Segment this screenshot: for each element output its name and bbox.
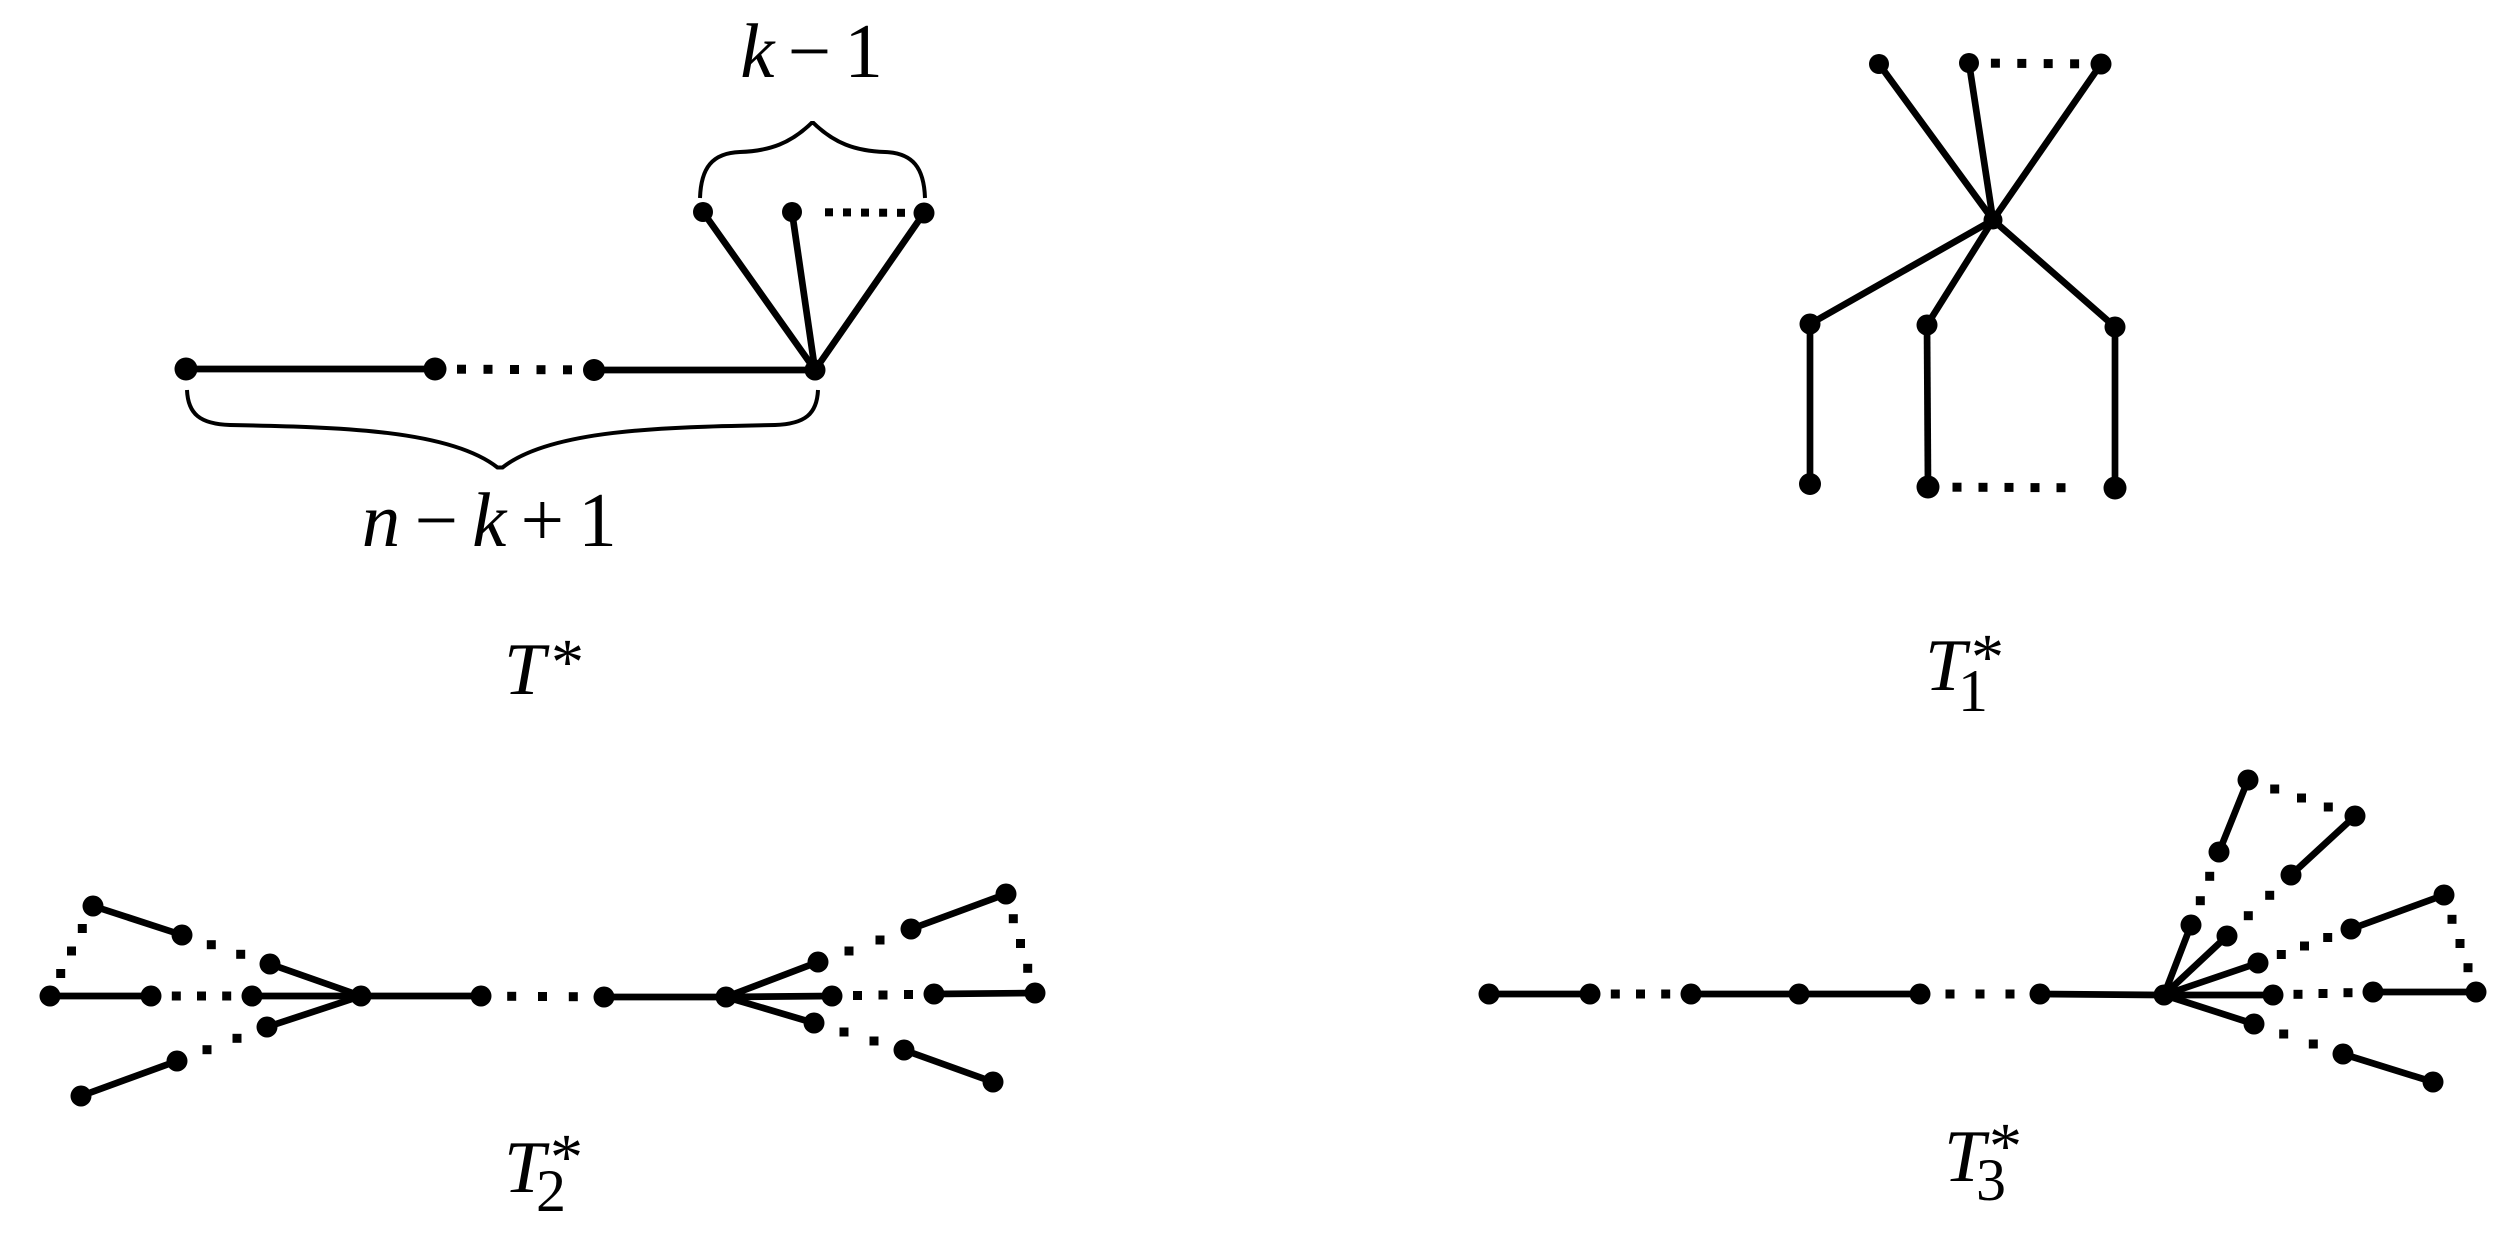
dotted edge T2* upper-left ray <box>207 940 245 959</box>
node T1* U2 <box>1959 53 1979 73</box>
edge T* path C-hub <box>594 367 815 374</box>
svg-text:n − k + 1: n − k + 1 <box>362 477 615 563</box>
dotted edge T2* upper-right ray <box>845 936 885 956</box>
node T2* hubR <box>716 987 737 1008</box>
edge T3* ray1 tip edge <box>2219 780 2248 852</box>
edge T* hub-L1 <box>703 212 815 370</box>
edge T3* hub-F1 <box>2164 925 2191 995</box>
dotted edge T1* U2..U3 <box>1991 59 2079 69</box>
dotted edge T2* fan arc left <box>56 924 87 978</box>
edge T1* U3-hub <box>1993 64 2101 220</box>
node T2* LR mid <box>894 1040 915 1061</box>
node T3* R9 <box>2466 982 2487 1003</box>
edge T2* hubL-P4 <box>361 993 481 1000</box>
node T3* F4 <box>2263 985 2284 1006</box>
node T3* tip2 <box>2345 806 2366 827</box>
edge T1* M3-B3 <box>2112 327 2119 488</box>
edge T2* P3-hubL <box>252 993 361 1000</box>
node T1* B2 <box>1917 476 1940 499</box>
node T1* U1 <box>1869 54 1889 74</box>
node T* L1 <box>693 202 713 222</box>
dotted edge T3* R2..R3 <box>1611 990 1670 999</box>
node T2* hubL <box>351 986 372 1007</box>
brace k-1 <box>700 123 925 198</box>
svg-text:*: * <box>1989 1110 2022 1183</box>
node T2* UR tip <box>996 884 1017 905</box>
edge T3* hub-F2 <box>2164 936 2227 995</box>
node T1* U3 <box>2091 54 2112 75</box>
node T2* P2 <box>141 986 162 1007</box>
edge T3* R1-R2 <box>1489 991 1590 998</box>
node T* A <box>175 358 198 381</box>
dotted edge T3* ray3 dots <box>2277 933 2332 959</box>
edge T1* hub-M2 <box>1927 220 1993 325</box>
edge T2* UL-hubL <box>270 964 361 996</box>
edge T2* hubR-LR <box>726 997 814 1023</box>
node T* hub <box>805 360 826 381</box>
edge T1* M1-B1 <box>1807 324 1814 484</box>
edge T2* hubR-MR <box>726 996 832 997</box>
node T3* R5 <box>1910 984 1931 1005</box>
node T2* LL leaf <box>257 1017 278 1038</box>
node T1* B1 <box>1799 473 1821 495</box>
node T2* low mid <box>167 1051 188 1072</box>
edge T3* lower ray tip edge <box>2343 1054 2433 1082</box>
node T3* R1 <box>1479 984 1500 1005</box>
node T1* B3 <box>2104 477 2127 500</box>
dotted edge T1* B2..B3 <box>1953 483 2066 493</box>
node T3* F5 <box>2244 1014 2265 1035</box>
dotted edge T3* F4..R8 <box>2294 988 2353 999</box>
dotted edge T3* lower ray dots <box>2279 1030 2318 1049</box>
node T3* tip5 <box>2423 1072 2444 1093</box>
edge T2* top tip edge <box>93 906 182 935</box>
node T1* M3 <box>2105 317 2126 338</box>
node T3* N5 <box>2333 1044 2354 1065</box>
node T3* N2 <box>2281 865 2302 886</box>
node T* L2 <box>782 202 802 222</box>
edge T3* hub-F4 <box>2164 992 2273 999</box>
node T3* R3 <box>1681 984 1702 1005</box>
dotted edge T2* MR..Q2 <box>853 990 913 1000</box>
node T2* top tip <box>83 896 104 917</box>
edge T2* LL-hubL <box>267 996 361 1027</box>
edge T1* hub-M3 <box>1993 220 2115 327</box>
svg-text:T: T <box>504 629 550 711</box>
edge T2* upper-right tip edge <box>911 894 1006 929</box>
node T2* P1 <box>40 986 61 1007</box>
node T2* UR mid <box>901 919 922 940</box>
dotted edge T3* R5..R6 <box>1946 990 2015 999</box>
node T3* F3 <box>2248 953 2269 974</box>
dotted edge T* path B..C <box>457 365 572 375</box>
edge T1* U1-hub <box>1879 64 1993 220</box>
edge T3* R4-R5 <box>1799 991 1920 998</box>
node T3* N1 <box>2209 842 2230 863</box>
svg-text:*: * <box>550 1121 583 1194</box>
node T2* UL leaf <box>260 954 281 975</box>
node T* L3 <box>914 203 935 224</box>
node T2* LR tip <box>983 1072 1004 1093</box>
dotted edge T3* ray2 dots <box>2244 891 2274 920</box>
edge T1* M2-B2 <box>1927 325 1928 487</box>
node T2* LR leaf <box>804 1013 825 1034</box>
dotted edge T* L2..L3 <box>825 208 905 217</box>
dotted edge T3* ray1 dots <box>2196 872 2214 905</box>
node T3* R8 <box>2363 982 2384 1003</box>
node T3* N3 <box>2341 919 2362 940</box>
node T1* M2 <box>1917 315 1938 336</box>
node T3* R2 <box>1580 984 1601 1005</box>
node T2* P5 <box>594 987 615 1008</box>
dotted edge T3* arc tip3-R9 <box>2448 915 2473 972</box>
dotted edge T2* P2..P3 <box>172 992 231 1001</box>
edge T* hub-L3 <box>815 213 924 370</box>
node T2* Q2 <box>924 984 945 1005</box>
edge T3* R6-hub <box>2040 994 2164 995</box>
edge T2* bottom tip edge <box>81 1061 177 1096</box>
svg-text:*: * <box>551 626 584 699</box>
edge T2* P5-hubR <box>604 994 726 1001</box>
node T* B <box>424 358 447 381</box>
svg-text:k − 1: k − 1 <box>740 8 880 94</box>
node T* C <box>583 359 605 381</box>
node T1* hub <box>1984 211 2003 230</box>
edge T2* hubR-UR <box>726 962 818 997</box>
node T3* R6 <box>2030 984 2051 1005</box>
dotted edge T2* fan arc right <box>1009 914 1032 973</box>
node T3* tip3 <box>2434 885 2455 906</box>
node T2* UR leaf <box>808 952 829 973</box>
edge T1* hub-M1 <box>1810 220 1993 324</box>
edge T* hub-L2 <box>792 212 815 370</box>
dotted edge T2* P4..P5 <box>507 992 578 1001</box>
node T3* F1 <box>2181 915 2202 936</box>
edge T3* R8-R9 <box>2373 989 2476 996</box>
node T1* M1 <box>1800 314 1821 335</box>
node T3* R4 <box>1789 984 1810 1005</box>
edge T3* hub-F5 <box>2164 995 2254 1024</box>
edge T2* P1-P2 <box>50 993 151 1000</box>
svg-text:*: * <box>1971 621 2004 694</box>
edge T3* ray2 tip edge <box>2291 816 2355 875</box>
edge T1* U2-hub <box>1969 63 1993 220</box>
edge T2* lower-right tip edge <box>904 1050 993 1082</box>
node T2* P4 <box>471 986 492 1007</box>
node T2* P3 <box>242 986 263 1007</box>
node T3* hub <box>2154 985 2175 1006</box>
dotted edge T3* arc tip1-tip2 <box>2270 785 2333 812</box>
edge T3* ray3 tip edge <box>2351 895 2444 929</box>
dotted edge T2* lower-left ray <box>203 1034 242 1054</box>
edge T3* R3-R4 <box>1691 991 1799 998</box>
edge T3* hub-F3 <box>2164 963 2258 995</box>
node T2* top mid <box>172 925 193 946</box>
brace n-k+1 <box>187 390 818 468</box>
node T2* MR leaf <box>822 986 843 1007</box>
edge T* path A-B <box>186 366 435 373</box>
node T3* tip1 <box>2238 770 2259 791</box>
node T2* Q3 <box>1025 983 1046 1004</box>
dotted edge T2* lower-right ray <box>840 1028 879 1046</box>
node T2* bottom tip <box>71 1086 92 1107</box>
edge T2* Q2-Q3 <box>934 993 1035 994</box>
node T3* F2 <box>2217 926 2238 947</box>
